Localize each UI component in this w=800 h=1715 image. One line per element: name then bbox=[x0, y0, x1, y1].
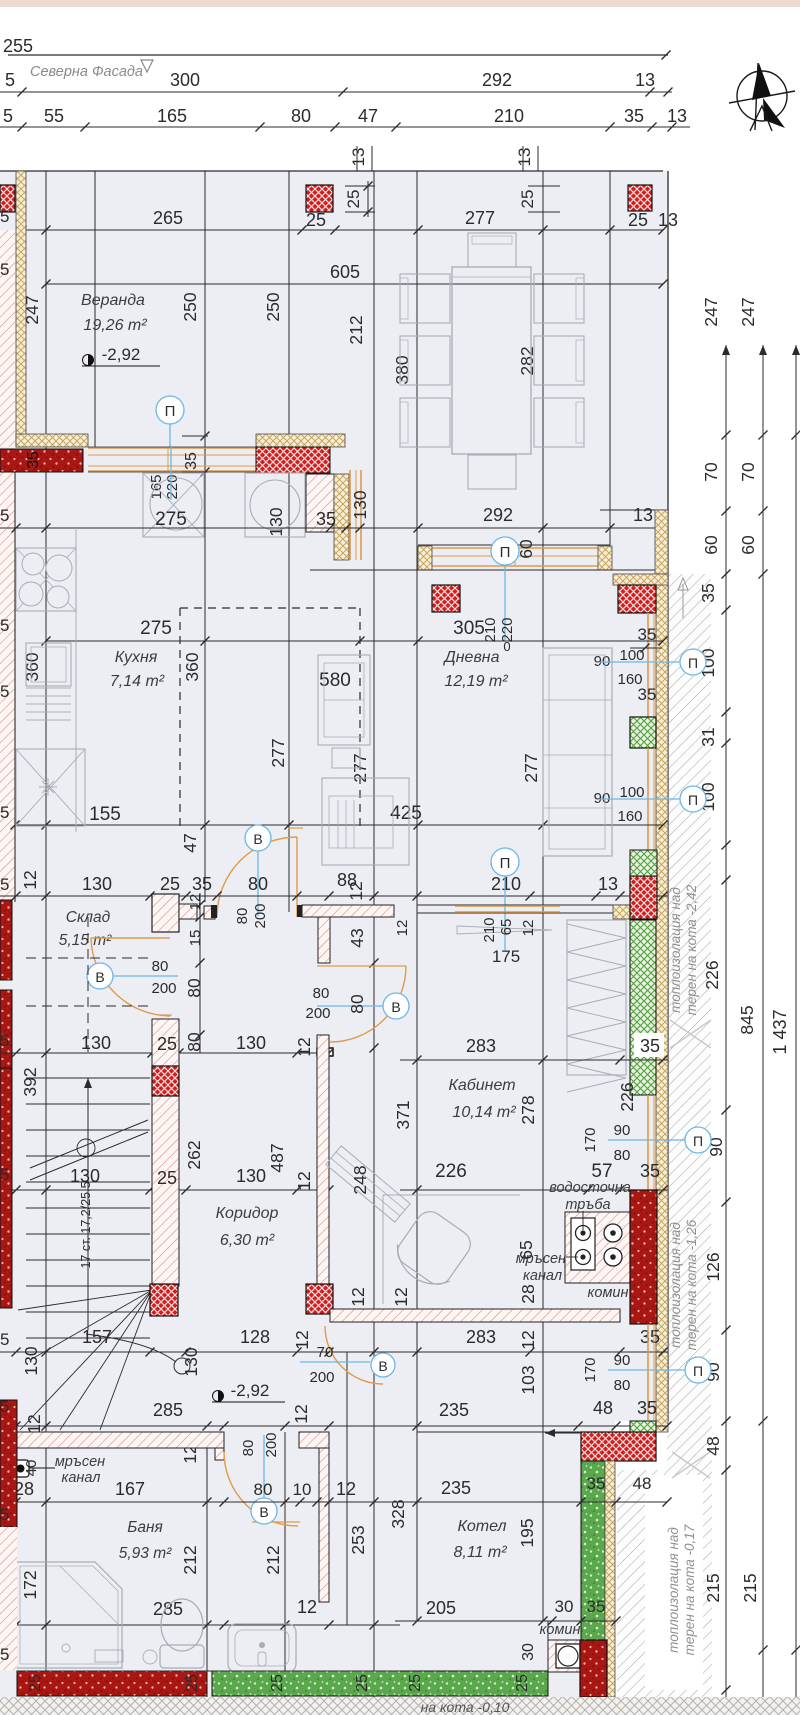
kabinet wall tan piece bbox=[613, 905, 630, 919]
left wall red low bbox=[0, 900, 12, 980]
window mark P kabinet bbox=[491, 848, 519, 876]
svg-text:167: 167 bbox=[115, 1479, 145, 1499]
window right wall lowest bbox=[647, 1324, 649, 1420]
svg-text:80: 80 bbox=[313, 985, 330, 1002]
svg-text:200: 200 bbox=[252, 903, 269, 928]
door mark B kitchen bbox=[245, 825, 271, 851]
svg-text:12: 12 bbox=[394, 920, 411, 937]
svg-text:25: 25 bbox=[157, 1034, 177, 1054]
svg-text:5: 5 bbox=[0, 875, 9, 894]
dining chair left 2 bbox=[400, 336, 450, 385]
svg-text:19,26 m²: 19,26 m² bbox=[83, 317, 147, 334]
svg-text:25: 25 bbox=[344, 190, 363, 209]
column dining right red bbox=[618, 585, 656, 613]
svg-text:25: 25 bbox=[306, 210, 326, 230]
svg-text:Кабинет: Кабинет bbox=[448, 1077, 515, 1094]
stairs walk line circle bbox=[174, 1358, 190, 1374]
dining chair bottom bbox=[468, 455, 516, 489]
kabinet top window bbox=[455, 905, 560, 907]
bottom gray band bbox=[0, 1697, 800, 1715]
svg-text:35: 35 bbox=[587, 1474, 606, 1493]
dining chair right 1 bbox=[534, 274, 584, 323]
sofa bbox=[543, 648, 612, 856]
svg-text:25: 25 bbox=[354, 1674, 371, 1692]
svg-text:35: 35 bbox=[587, 1597, 606, 1616]
svg-text:128: 128 bbox=[240, 1327, 270, 1347]
svg-text:235: 235 bbox=[441, 1478, 471, 1498]
svg-text:В: В bbox=[378, 1358, 387, 1374]
svg-text:278: 278 bbox=[518, 1095, 538, 1124]
north wall tan strip B bbox=[256, 434, 345, 447]
rail C ticks bbox=[792, 431, 800, 440]
dining table bbox=[452, 267, 531, 454]
svg-text:80: 80 bbox=[248, 874, 268, 894]
svg-text:25: 25 bbox=[628, 210, 648, 230]
right rail C line bbox=[795, 345, 797, 1715]
bath bottom line bbox=[17, 1670, 400, 1672]
dining chair top bbox=[468, 233, 516, 267]
svg-text:12: 12 bbox=[520, 920, 537, 937]
svg-text:17 ст. 17,2/25,5: 17 ст. 17,2/25,5 bbox=[79, 1181, 93, 1268]
svg-text:250: 250 bbox=[180, 292, 200, 321]
kabinet top wall band bbox=[417, 904, 630, 906]
svg-text:комин: комин bbox=[540, 1622, 581, 1638]
svg-text:60: 60 bbox=[701, 535, 721, 555]
svg-text:200: 200 bbox=[309, 1369, 334, 1386]
svg-text:Баня: Баня bbox=[127, 1519, 163, 1536]
window mark P dining bbox=[491, 537, 519, 565]
dim row y1502 bbox=[0, 1501, 667, 1503]
north wall window band bbox=[88, 447, 256, 449]
right edge x668 bbox=[667, 171, 669, 1421]
axis x610 bbox=[609, 171, 611, 570]
corridor T wall top bbox=[302, 905, 394, 917]
svg-text:5: 5 bbox=[3, 106, 13, 126]
wall sklad-corridor bbox=[152, 1019, 179, 1066]
svg-text:155: 155 bbox=[89, 804, 121, 825]
svg-text:80: 80 bbox=[234, 908, 251, 925]
svg-text:1 437: 1 437 bbox=[770, 1009, 790, 1054]
right wall tan upper bbox=[655, 510, 668, 574]
level mark -2.92 corridor bbox=[213, 1391, 224, 1402]
wall sklad-corridor 2 bbox=[152, 1096, 179, 1286]
kitchen drawers bbox=[26, 687, 71, 689]
svg-text:5: 5 bbox=[0, 506, 9, 525]
insulation band arrow bbox=[678, 578, 688, 590]
svg-text:13: 13 bbox=[633, 505, 653, 525]
right rail A top arrow bbox=[722, 345, 730, 355]
axis x207 bath bbox=[206, 1432, 208, 1697]
axis x95 bbox=[94, 171, 96, 447]
svg-text:425: 425 bbox=[390, 803, 422, 824]
window mark P right low bbox=[685, 1357, 711, 1383]
window right wall low bbox=[647, 1095, 649, 1190]
svg-text:12: 12 bbox=[297, 1597, 317, 1617]
svg-text:12: 12 bbox=[518, 1330, 538, 1349]
dim chain x200 bbox=[199, 893, 201, 1053]
window mark P right lower bbox=[680, 786, 706, 812]
svg-text:5: 5 bbox=[0, 207, 9, 226]
kabinet wardrobe bbox=[567, 920, 626, 1075]
rail B ticks bbox=[759, 431, 768, 440]
kitchen range top right bbox=[245, 473, 305, 537]
corridor door bottom arc bbox=[325, 1326, 383, 1384]
level mark -2.92 veranda bbox=[83, 355, 94, 366]
terrain insulation band upper bbox=[669, 574, 711, 1421]
svg-text:35: 35 bbox=[183, 452, 200, 470]
svg-text:12: 12 bbox=[336, 1479, 356, 1499]
svg-text:285: 285 bbox=[153, 1400, 183, 1420]
right step 13 bbox=[600, 509, 668, 511]
dining chair left 3 bbox=[400, 398, 450, 447]
svg-text:12: 12 bbox=[294, 1171, 314, 1190]
svg-text:210: 210 bbox=[481, 917, 498, 942]
drain symbol bath bbox=[12, 1460, 29, 1477]
svg-text:13: 13 bbox=[598, 874, 618, 894]
window mark P right upper bbox=[680, 649, 706, 675]
svg-text:80: 80 bbox=[347, 994, 367, 1014]
insulation X mark 1 bbox=[670, 1020, 711, 1048]
svg-text:П: П bbox=[688, 792, 698, 808]
terrain insulation band bottom bbox=[617, 1470, 712, 1697]
svg-text:35: 35 bbox=[698, 583, 718, 602]
svg-text:35: 35 bbox=[638, 685, 657, 704]
dining chair left 1 bbox=[400, 274, 450, 323]
door mark B sklad bbox=[87, 963, 113, 989]
svg-text:30: 30 bbox=[555, 1597, 574, 1616]
svg-text:35: 35 bbox=[638, 625, 657, 644]
svg-text:Северна Фасада: Северна Фасада bbox=[30, 64, 143, 80]
svg-text:топлоизолация над: топлоизолация над bbox=[666, 1527, 681, 1653]
svg-text:-2,92: -2,92 bbox=[231, 1381, 270, 1400]
insulation text -0.17 bg bbox=[645, 1475, 703, 1690]
kitchen stove bbox=[16, 548, 76, 611]
svg-text:5: 5 bbox=[0, 803, 9, 822]
svg-text:845: 845 bbox=[737, 1005, 757, 1034]
kabinet shelf bbox=[457, 926, 552, 934]
rail A ticks bbox=[722, 431, 731, 440]
svg-text:12: 12 bbox=[391, 1287, 411, 1306]
svg-text:на кота -0,10: на кота -0,10 bbox=[421, 1699, 510, 1715]
svg-text:5: 5 bbox=[0, 1031, 9, 1050]
svg-text:247: 247 bbox=[701, 297, 721, 326]
svg-text:10,14 m²: 10,14 m² bbox=[452, 1104, 516, 1121]
svg-text:25: 25 bbox=[518, 190, 537, 209]
svg-text:170: 170 bbox=[582, 1127, 599, 1152]
svg-text:226: 226 bbox=[617, 1082, 637, 1111]
corner tan strip bbox=[334, 474, 349, 560]
svg-text:П: П bbox=[500, 544, 511, 561]
svg-text:487: 487 bbox=[267, 1143, 287, 1172]
svg-text:П: П bbox=[165, 403, 176, 420]
svg-text:48: 48 bbox=[593, 1398, 613, 1418]
boiler wall green bbox=[581, 1461, 605, 1640]
bath wall end step bbox=[215, 1448, 224, 1460]
svg-text:комин: комин bbox=[588, 1285, 629, 1301]
svg-text:212: 212 bbox=[263, 1545, 283, 1574]
svg-text:5: 5 bbox=[0, 1397, 9, 1416]
svg-text:35: 35 bbox=[640, 1161, 660, 1181]
dim row y1060 right bbox=[634, 1033, 664, 1057]
svg-text:5: 5 bbox=[0, 1165, 9, 1184]
svg-text:12: 12 bbox=[346, 881, 366, 900]
column boiler red bbox=[581, 1432, 656, 1461]
svg-text:200: 200 bbox=[263, 1432, 280, 1457]
svg-text:130: 130 bbox=[70, 1166, 100, 1186]
svg-text:275: 275 bbox=[155, 509, 187, 530]
svg-text:43: 43 bbox=[347, 928, 367, 947]
svg-text:300: 300 bbox=[170, 70, 200, 90]
svg-text:5: 5 bbox=[0, 1505, 9, 1524]
dim row y1621 bbox=[395, 1620, 617, 1622]
svg-text:5,15 m²: 5,15 m² bbox=[59, 932, 112, 949]
svg-text:90: 90 bbox=[614, 1122, 631, 1139]
bath door arc bbox=[224, 1452, 298, 1526]
svg-text:130: 130 bbox=[236, 1033, 266, 1053]
dim line y641 bbox=[46, 640, 663, 642]
green top right block bbox=[630, 850, 657, 876]
svg-text:60: 60 bbox=[738, 535, 758, 555]
left wall tan strip bbox=[16, 171, 26, 447]
door mark B corridor bottom bbox=[371, 1353, 395, 1377]
left wall pink lower bbox=[0, 230, 15, 447]
dim row y1190 right bbox=[400, 1189, 668, 1191]
svg-text:7,14 m²: 7,14 m² bbox=[110, 673, 165, 690]
svg-text:топлоизолация над: топлоизолация над bbox=[668, 1222, 683, 1348]
svg-text:55: 55 bbox=[44, 106, 64, 126]
svg-text:210: 210 bbox=[491, 874, 521, 894]
svg-text:215: 215 bbox=[703, 1573, 723, 1602]
svg-text:12: 12 bbox=[292, 1330, 312, 1349]
dim row y896 bbox=[0, 895, 668, 897]
green block boiler top bbox=[630, 1421, 656, 1435]
svg-text:13: 13 bbox=[349, 148, 368, 167]
column dining left red bbox=[432, 585, 460, 612]
axis x347 bbox=[346, 1352, 348, 1625]
right wall tan top piece bbox=[613, 574, 668, 585]
svg-text:12: 12 bbox=[24, 1414, 44, 1433]
column top-mid red bbox=[306, 185, 333, 212]
north wall red block left bbox=[0, 449, 83, 472]
svg-text:80: 80 bbox=[614, 1147, 631, 1164]
svg-text:103: 103 bbox=[518, 1365, 538, 1394]
svg-text:Коридор: Коридор bbox=[216, 1205, 279, 1222]
desk bbox=[383, 1195, 520, 1304]
radiator rotated bbox=[326, 1146, 410, 1222]
chimney flues bbox=[571, 1218, 595, 1270]
svg-text:175: 175 bbox=[492, 947, 520, 966]
right rail C top arrow bbox=[792, 345, 800, 355]
window right wall mid bbox=[647, 748, 649, 876]
axis x418 bbox=[416, 171, 418, 1621]
svg-text:360: 360 bbox=[22, 652, 42, 681]
right rail B line bbox=[762, 345, 764, 1715]
column corridor red bbox=[306, 1284, 333, 1314]
kitchen door arc bbox=[217, 837, 297, 917]
svg-text:283: 283 bbox=[466, 1327, 496, 1347]
svg-text:25: 25 bbox=[184, 1674, 201, 1692]
svg-text:13: 13 bbox=[515, 148, 534, 167]
svg-text:70: 70 bbox=[701, 462, 721, 482]
right wall tan strip long bbox=[656, 574, 668, 1432]
svg-text:мръсен: мръсен bbox=[55, 1454, 105, 1470]
svg-text:60: 60 bbox=[516, 539, 536, 559]
line y570 bbox=[310, 569, 668, 571]
stair dashed mid bbox=[26, 1103, 150, 1105]
svg-text:12: 12 bbox=[294, 1037, 314, 1056]
svg-text:170: 170 bbox=[582, 1357, 599, 1382]
svg-text:канал: канал bbox=[62, 1470, 101, 1486]
axis x543 bbox=[542, 171, 544, 1621]
stair break line bbox=[30, 1120, 148, 1180]
svg-text:172: 172 bbox=[20, 1570, 40, 1599]
svg-text:262: 262 bbox=[184, 1140, 204, 1169]
svg-text:25: 25 bbox=[160, 874, 180, 894]
svg-text:47: 47 bbox=[180, 833, 200, 852]
axis x289 bbox=[288, 171, 290, 912]
line y284 (605 dim) bbox=[46, 283, 663, 285]
svg-text:5: 5 bbox=[0, 682, 9, 701]
dining wall window band bbox=[430, 547, 600, 549]
svg-text:380: 380 bbox=[392, 355, 412, 384]
window mark P veranda bbox=[156, 396, 184, 424]
svg-text:12: 12 bbox=[20, 870, 40, 889]
svg-text:35: 35 bbox=[640, 1327, 660, 1347]
svg-text:12: 12 bbox=[348, 1287, 368, 1306]
dining wall tan right bbox=[598, 546, 612, 570]
svg-text:5: 5 bbox=[5, 70, 15, 90]
svg-text:Котел: Котел bbox=[457, 1518, 506, 1535]
column stairs red bbox=[150, 1284, 178, 1316]
column top-right red bbox=[628, 185, 652, 211]
sklad wall corner piece bbox=[152, 894, 179, 932]
svg-text:40: 40 bbox=[23, 1460, 40, 1477]
svg-text:13: 13 bbox=[658, 210, 678, 230]
svg-text:80: 80 bbox=[184, 978, 204, 998]
svg-text:130: 130 bbox=[21, 1346, 41, 1375]
dining chair right 3 bbox=[534, 398, 584, 447]
svg-text:210: 210 bbox=[494, 106, 524, 126]
stair treads bbox=[26, 1077, 150, 1079]
svg-text:80: 80 bbox=[240, 1440, 257, 1457]
sklad door arc bbox=[91, 938, 170, 1016]
svg-text:292: 292 bbox=[483, 505, 513, 525]
svg-text:В: В bbox=[391, 999, 400, 1015]
window vertical right of veranda bbox=[349, 470, 351, 560]
corridor door arc top bbox=[330, 966, 406, 1042]
svg-text:215: 215 bbox=[740, 1573, 760, 1602]
svg-text:605: 605 bbox=[330, 262, 360, 282]
svg-text:226: 226 bbox=[435, 1161, 467, 1182]
svg-text:25: 25 bbox=[514, 1674, 531, 1692]
svg-text:тръба: тръба bbox=[565, 1197, 610, 1213]
left wall pink kitchen bbox=[0, 472, 15, 902]
svg-text:35: 35 bbox=[624, 106, 644, 126]
svg-text:5,93 m²: 5,93 m² bbox=[119, 1545, 172, 1562]
svg-text:80: 80 bbox=[614, 1377, 631, 1394]
floor interior tint bbox=[0, 171, 668, 1697]
komin flue bottom bbox=[548, 1640, 580, 1672]
compass rose bbox=[729, 63, 795, 131]
svg-text:35: 35 bbox=[25, 451, 42, 469]
svg-text:292: 292 bbox=[482, 70, 512, 90]
svg-text:6,30 m²: 6,30 m² bbox=[220, 1232, 275, 1249]
sklad wall finger bbox=[179, 904, 197, 919]
svg-text:277: 277 bbox=[465, 208, 495, 228]
left wall pink lowest bbox=[0, 1527, 17, 1670]
svg-text:277: 277 bbox=[521, 753, 541, 782]
svg-text:305: 305 bbox=[453, 618, 485, 639]
svg-text:160: 160 bbox=[617, 808, 642, 825]
dim row 300/292/13 bbox=[0, 91, 672, 93]
terrain insulation band lower bbox=[667, 1421, 712, 1470]
svg-text:205: 205 bbox=[426, 1598, 456, 1618]
svg-text:48: 48 bbox=[703, 1436, 723, 1455]
svg-text:15: 15 bbox=[187, 930, 204, 947]
dim row y1352 right bbox=[400, 1351, 668, 1353]
sklad dashed lines bbox=[26, 957, 150, 959]
svg-text:водосточна: водосточна bbox=[549, 1180, 631, 1196]
svg-text:130: 130 bbox=[82, 874, 112, 894]
svg-text:253: 253 bbox=[348, 1525, 368, 1554]
svg-text:В: В bbox=[259, 1504, 268, 1520]
green block right wall bbox=[630, 717, 656, 748]
svg-text:65: 65 bbox=[498, 919, 515, 936]
svg-text:П: П bbox=[693, 1363, 703, 1379]
armchair 1 bbox=[318, 655, 370, 745]
kitchen fridge bbox=[16, 749, 85, 826]
bath top wall right bbox=[299, 1432, 329, 1448]
column 25 bracket bbox=[345, 185, 375, 187]
svg-text:12: 12 bbox=[291, 1404, 311, 1423]
svg-text:247: 247 bbox=[738, 297, 758, 326]
armchair 2 bbox=[322, 778, 409, 865]
column sklad red bbox=[152, 1066, 179, 1096]
kitchen dashed boundary bbox=[180, 607, 360, 609]
dim row y1625 bbox=[0, 1624, 400, 1626]
tick line x364 bbox=[356, 146, 358, 171]
insulation X mark 2 bbox=[672, 1452, 710, 1478]
dim row y1352 left bbox=[0, 1351, 400, 1353]
svg-text:47: 47 bbox=[358, 106, 378, 126]
green strip kabinet right bbox=[630, 920, 656, 1095]
svg-text:5: 5 bbox=[0, 1330, 9, 1349]
door mark B corridor top bbox=[383, 993, 409, 1019]
top edge band bbox=[0, 0, 800, 7]
line y230 (265/277 dims) bbox=[16, 229, 663, 231]
right rail A line bbox=[725, 345, 727, 1715]
svg-text:285: 285 bbox=[153, 1599, 183, 1619]
dim line y528 bbox=[0, 527, 668, 529]
svg-text:80: 80 bbox=[254, 1480, 273, 1499]
corner pink block bbox=[306, 474, 334, 532]
tick line x530 bbox=[522, 146, 524, 171]
svg-text:терен на кота -2,42: терен на кота -2,42 bbox=[684, 884, 699, 1015]
dim line y825 bbox=[15, 824, 663, 826]
svg-text:130: 130 bbox=[236, 1166, 266, 1186]
axis x205 bbox=[204, 171, 206, 902]
boiler wall tan bbox=[605, 1461, 615, 1697]
svg-text:35: 35 bbox=[192, 874, 212, 894]
coffee table bbox=[332, 748, 360, 768]
svg-text:212: 212 bbox=[346, 315, 366, 344]
svg-text:35: 35 bbox=[640, 1036, 660, 1056]
svg-text:5: 5 bbox=[0, 616, 9, 635]
svg-text:130: 130 bbox=[81, 1033, 111, 1053]
kitchen counter mid bbox=[26, 643, 71, 686]
svg-text:-2,92: -2,92 bbox=[102, 345, 141, 364]
left wall red mid bbox=[0, 1068, 12, 1308]
